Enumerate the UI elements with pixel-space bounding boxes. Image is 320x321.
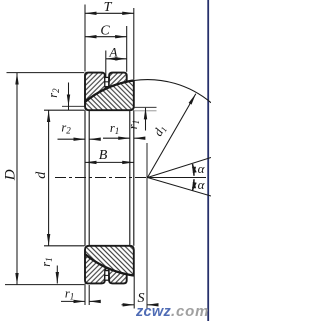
dimension D <box>3 73 85 285</box>
dimension r1 horizontal (middle right) <box>103 121 145 138</box>
dimension S (bottom right) <box>122 143 159 309</box>
svg-text:T: T <box>104 0 113 15</box>
svg-text:C: C <box>100 24 110 39</box>
svg-text:α: α <box>198 161 206 176</box>
dimension r1 rotated (top right) <box>126 107 157 130</box>
dimension d1 (sphere diameter, diagonal) <box>148 94 196 178</box>
svg-text:d: d <box>34 171 49 179</box>
watermark zcwz.com <box>135 303 209 320</box>
contact angle alpha upper <box>148 158 212 178</box>
outer ring bottom section <box>85 254 127 283</box>
svg-text:B: B <box>99 148 108 163</box>
dimension T <box>85 0 134 79</box>
outer ring top section <box>85 73 127 102</box>
centerline axis <box>55 177 148 179</box>
middle extension line left face <box>84 110 86 246</box>
svg-text:A: A <box>109 45 118 60</box>
lubrication pin in bottom slot <box>105 271 109 281</box>
svg-text:D: D <box>3 169 19 181</box>
svg-text:.com: .com <box>171 303 209 320</box>
right page border <box>207 0 209 321</box>
contact angle alpha lower <box>148 177 212 196</box>
middle extension line left r2 offset <box>88 110 90 245</box>
dimension A <box>106 45 127 78</box>
sphere curve top (thick) <box>85 81 134 102</box>
dimension C <box>85 24 127 72</box>
dimension r2 horizontal (left) <box>58 121 99 140</box>
svg-text:α: α <box>198 177 206 192</box>
inner ring top section <box>85 81 134 111</box>
dimension r1 horizontal (bottom left) <box>61 283 99 305</box>
inner ring bottom section <box>85 246 134 276</box>
dimension B <box>85 148 134 163</box>
dimension r1 rotated (bottom left) <box>39 257 57 283</box>
dimension r2 rotated (top left) <box>46 83 85 111</box>
middle extension line right face <box>133 110 135 246</box>
dimension d <box>34 110 85 246</box>
middle extension line right r1 offset <box>129 110 131 245</box>
lubrication pin in top slot <box>105 77 109 86</box>
sphere curve bottom (thick) <box>85 254 134 275</box>
sphere construction arc <box>134 80 211 103</box>
svg-text:zcwz: zcwz <box>135 304 171 320</box>
